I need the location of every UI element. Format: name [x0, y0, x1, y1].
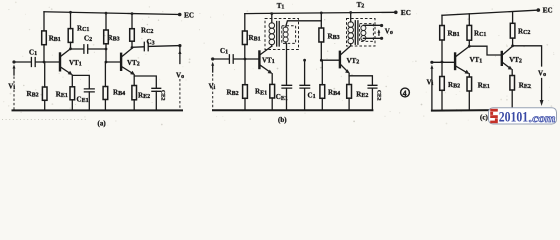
svg-text:EC: EC: [543, 5, 553, 14]
svg-text:.com: .com: [529, 113, 556, 125]
svg-text:EC: EC: [184, 10, 194, 19]
svg-text:(c): (c): [480, 113, 488, 121]
svg-text:CE2: CE2: [376, 90, 382, 101]
svg-text:EC: EC: [401, 8, 411, 17]
svg-text:CE2: CE2: [159, 90, 165, 101]
svg-text:(a): (a): [98, 120, 107, 128]
svg-text:(b): (b): [278, 116, 287, 124]
svg-text:4: 4: [403, 89, 407, 98]
svg-text:20101: 20101: [499, 110, 529, 126]
